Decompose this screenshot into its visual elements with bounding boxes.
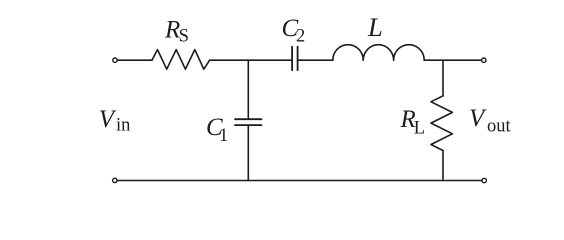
resistor R_L [431,96,452,151]
svg-text:L: L [414,118,425,138]
svg-text:S: S [179,26,189,46]
label C2 [282,15,306,46]
svg-text:out: out [487,116,512,136]
wire: L to output terminal [424,59,481,61]
wire: R_L branch top (node to R_L) [442,60,444,96]
terminal: output bottom [482,178,486,182]
wire: R_S to C2 (through node at C1 branch) [210,59,293,61]
terminal: input top [113,58,117,62]
capacitor C2 [292,47,298,70]
svg-text:in: in [116,116,130,136]
svg-text:2: 2 [296,26,305,46]
svg-text:V: V [99,106,117,133]
inductor L [333,45,424,61]
label R_L [400,106,426,138]
resistor R_S [152,50,210,70]
capacitor C1 [235,119,262,125]
label R_S [164,16,189,46]
wire: C2 to L [298,59,333,61]
svg-text:L: L [367,12,383,42]
terminal: output top [482,58,486,62]
wire: input terminal to R_S [117,59,152,61]
label C1 [206,114,228,146]
label V_in [99,106,131,135]
svg-text:1: 1 [219,126,228,146]
wire: C1 to bottom rail [247,125,249,180]
svg-text:V: V [469,105,487,132]
wire: C1 branch top (node to C1) [247,60,249,119]
terminal: input bottom [113,178,117,182]
wire: R_L to bottom rail [442,151,444,181]
label V_out [469,105,512,136]
wire: bottom rail [117,180,482,182]
